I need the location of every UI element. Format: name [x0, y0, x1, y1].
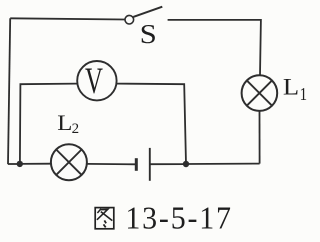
svg-text:S: S [140, 19, 157, 49]
caption 图 13-5-17 [95, 201, 233, 236]
battery [136, 148, 150, 181]
svg-text:L: L [57, 111, 72, 136]
node A junction [17, 161, 23, 167]
label S [140, 19, 157, 49]
wire bottom-left [8, 163, 20, 165]
label L1 [283, 75, 307, 105]
wire right-bottom [259, 111, 261, 164]
lamp L2 [51, 144, 87, 180]
svg-text:2: 2 [72, 121, 80, 137]
lamp L1 [242, 75, 278, 111]
svg-text:1: 1 [300, 85, 307, 104]
node B junction [183, 161, 189, 167]
svg-text:13-5-17: 13-5-17 [125, 201, 232, 236]
wire L2-to-battery [87, 163, 135, 165]
wire battery-to-nodeB [151, 163, 187, 165]
wire left vertical [8, 18, 10, 164]
switch S [125, 7, 162, 24]
label L2 [57, 111, 79, 137]
wire voltmeter rail right [117, 84, 186, 164]
voltmeter V [77, 60, 116, 101]
wire voltmeter-branch left [20, 84, 77, 164]
wire top-right [168, 20, 261, 75]
svg-text:L: L [283, 75, 299, 100]
wire bottom-right [186, 163, 260, 165]
wire nodeA-to-L2 [20, 163, 51, 165]
wire top-left [10, 18, 125, 19]
svg-text:V: V [85, 60, 103, 101]
